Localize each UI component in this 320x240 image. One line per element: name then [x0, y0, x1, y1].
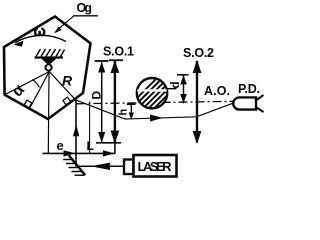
rotation arrow arc: [14, 35, 67, 46]
vertical ray / extension to e datum: [47, 72, 50, 155]
laser beam line: [78, 165, 124, 167]
D top cap: [95, 60, 109, 62]
beam arrowhead: [91, 163, 111, 170]
incident beam vertical with up arrow: [73, 100, 80, 166]
fixed mirror diagonal: [69, 155, 85, 175]
dimension D line: [98, 62, 105, 143]
object circle with hatching: [123, 68, 222, 112]
svg-text:d: d: [170, 81, 182, 88]
right-angle square on lower-right face: [63, 97, 71, 105]
e / L dimension line: [43, 152, 115, 154]
S.O.1 top cap: [109, 59, 123, 61]
pivot support hatching: [36, 49, 65, 57]
L extension line: [89, 102, 91, 154]
label Og: [54, 1, 98, 33]
svg-text:e: e: [57, 138, 64, 153]
right-angle square on lower-left face: [24, 100, 32, 108]
radius R ray: [49, 72, 75, 100]
svg-text:LASER: LASER: [138, 159, 173, 174]
svg-text:S.O.2: S.O.2: [183, 46, 214, 60]
e arrowhead: [64, 150, 76, 156]
photodetector P.D. body: [233, 95, 263, 112]
mirror hatching: [63, 160, 84, 176]
bottom datum cap: [96, 142, 121, 144]
h dimension: [127, 104, 136, 120]
scanned lower ray to S.O.2: [76, 100, 234, 119]
detector leads: [257, 95, 264, 100]
lens S.O.2: [193, 60, 202, 145]
d pointer line: [167, 88, 177, 90]
svg-text:S.O.1: S.O.1: [103, 45, 134, 59]
lens S.O.1: [111, 60, 120, 144]
svg-text:h: h: [118, 109, 130, 116]
svg-text:P.D.: P.D.: [238, 82, 260, 96]
svg-text:D: D: [90, 91, 104, 100]
svg-text:Og: Og: [77, 1, 93, 15]
pivot support bar: [35, 56, 64, 58]
laser body box: [134, 155, 177, 177]
L arrowhead: [103, 150, 114, 156]
laser aperture box: [124, 160, 134, 175]
ray perpendicular to lower-left face: [30, 72, 50, 109]
svg-text:L: L: [87, 139, 94, 153]
ray to left vertex: [5, 72, 50, 95]
pivot triangle: [41, 59, 57, 66]
svg-text:A.O.: A.O.: [204, 84, 230, 98]
hexagon mirror body Og: [4, 17, 91, 120]
optical axis A.O. dash-dot: [77, 101, 234, 104]
lens extension down: [114, 143, 116, 154]
svg-text:ω: ω: [34, 24, 46, 40]
d dimension line: [177, 75, 189, 104]
pivot pin circle: [46, 64, 52, 70]
ray arrowhead: [150, 115, 163, 122]
svg-text:R: R: [62, 73, 73, 89]
alpha angle arc: [32, 80, 39, 88]
